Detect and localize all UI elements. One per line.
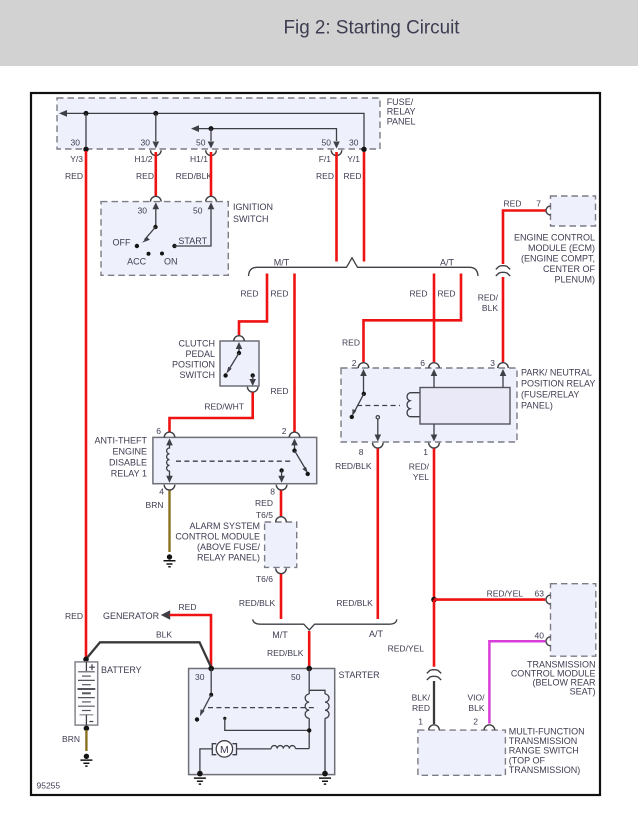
label BLK/RED [412,692,431,713]
svg-text:SEAT): SEAT) [570,687,596,697]
svg-text:63: 63 [535,588,545,598]
wire START to 50 [175,209,212,246]
starter 50 stem [308,669,310,695]
wire M/T left red to clutch [239,274,267,336]
connector at6 [164,432,175,437]
node solenoid junction [307,728,311,732]
svg-text:OFF: OFF [113,237,131,247]
starter dashed link [208,707,317,709]
relay pin2 stem [363,376,365,394]
contact ACC [147,252,151,256]
connector ECM pin 7 [546,206,551,215]
svg-text:2: 2 [352,358,357,368]
wire Y/1 red [363,152,366,262]
svg-text:RED/BLK: RED/BLK [267,648,304,658]
svg-text:RED/YEL: RED/YEL [388,644,425,654]
wire red/yel down [433,600,436,667]
at out stem [281,471,283,477]
switch blade ignition [145,227,156,240]
clutch out stem [252,376,254,380]
relay coil [407,393,420,417]
svg-text:RELAY PANEL): RELAY PANEL) [197,553,260,563]
node Y/3 top [84,111,89,116]
battery stem top [85,662,87,671]
connector ignition 50 [206,196,217,201]
svg-text:(FUSE/RELAY: (FUSE/RELAY [521,390,579,400]
park/neutral position relay box [341,368,517,442]
relay pin6 stem [433,376,435,388]
svg-text:ANTI-THEFT: ANTI-THEFT [95,435,148,445]
connector multi 1 [429,725,440,730]
svg-text:START: START [178,236,207,246]
label RED/YEL relay1 [409,461,430,482]
svg-text:RED: RED [504,199,522,209]
svg-text:RED: RED [65,171,83,181]
TCM label [511,660,596,697]
svg-text:6: 6 [156,426,161,436]
motor M circle [216,741,232,757]
svg-text:F/1: F/1 [319,154,332,164]
svg-text:ACC: ACC [127,256,147,266]
starter switch stem [210,669,212,695]
ground starter right [319,771,331,784]
wire BRN at4 to ground [168,491,170,553]
solenoid aux link [225,718,309,730]
anti-theft coil arrows [166,438,173,445]
svg-text:RED: RED [412,703,430,713]
wire H1/2 red [155,152,158,196]
battery stem bottom [85,715,87,725]
svg-text:BLK: BLK [482,303,498,313]
svg-text:30: 30 [141,137,151,147]
svg-text:M/T: M/T [272,630,288,640]
wire relay8 red/blk [376,449,379,620]
svg-text:RED: RED [342,338,360,348]
svg-text:40: 40 [535,630,545,640]
connector relay pin2 [358,363,369,368]
svg-text:(ENGINE COMPT,: (ENGINE COMPT, [521,254,595,264]
wire Y/3 drop [85,113,87,148]
relay out stem [377,419,379,435]
wire red/yel to TCM 63 [434,598,545,601]
svg-text:RED/WHT: RED/WHT [204,402,244,412]
svg-text:T6/6: T6/6 [256,574,273,584]
node at common [292,448,296,452]
node starter 50 [306,666,312,672]
wire generator red [170,615,212,667]
contact clutch out [251,373,255,377]
wire ignition 30 stem [155,209,157,227]
battery plus sign [89,664,95,670]
svg-text:POSITION: POSITION [172,359,215,369]
svg-text:DISABLE: DISABLE [109,457,147,467]
svg-text:RED: RED [179,602,197,612]
starter coil 2 [325,694,329,718]
contact START [172,244,176,248]
svg-text:A/T: A/T [440,257,455,267]
at pin2 stem [294,445,296,451]
starter coil 1 [305,694,309,718]
wire Y/3 red [85,151,88,658]
svg-text:50: 50 [322,137,332,147]
svg-text:RED: RED [271,289,289,299]
svg-text:30: 30 [71,137,81,147]
svg-text:ALARM SYSTEM: ALARM SYSTEM [189,521,260,531]
connector relay pin8 [373,443,384,448]
clutch pedal position switch box [220,341,259,386]
wire H1/2 drop with arrow [155,113,157,141]
battery minus sign [89,721,93,723]
svg-text:RED: RED [271,386,289,396]
node Y/1 bottom [361,147,366,152]
svg-text:RED: RED [410,289,428,299]
svg-text:4: 4 [159,486,164,496]
contact relay blade end [350,415,354,419]
svg-text:30: 30 [195,672,205,682]
motor brushes [212,744,236,755]
svg-text:PLENUM): PLENUM) [554,275,595,285]
svg-text:SWITCH: SWITCH [233,214,269,224]
arrow left bus1 [59,110,67,117]
ground starter left [194,771,206,784]
starter motor leads [200,749,309,774]
svg-text:7: 7 [536,199,541,209]
svg-text:RED: RED [438,289,456,299]
svg-text:PARK/ NEUTRAL: PARK/ NEUTRAL [521,368,592,378]
svg-text:RELAY 1: RELAY 1 [111,468,147,478]
connector relay pin1 [429,443,440,448]
node clutch common [237,351,241,355]
connector at4 [164,485,175,490]
ECM label [514,233,596,285]
connector relay pin6 [429,363,440,368]
multi-function switch label [509,726,585,775]
contact solenoid aux [223,717,226,720]
svg-text:STARTER: STARTER [339,670,381,680]
svg-text:GENERATOR: GENERATOR [103,611,160,621]
svg-text:H1/2: H1/2 [135,154,153,164]
svg-text:PANEL): PANEL) [521,401,553,411]
svg-text:CLUTCH: CLUTCH [178,338,215,348]
connector clutch top [234,336,245,341]
battery box [75,662,98,725]
wire RED/WHT clutch to relay 6 [170,393,253,432]
svg-text:50: 50 [291,672,301,682]
svg-text:RELAY: RELAY [387,107,416,117]
wire bus 2 in panel [196,129,337,141]
alarm module label [175,521,260,563]
svg-text:BATTERY: BATTERY [101,665,142,675]
svg-text:RED: RED [241,289,259,299]
wire BRN battery to ground [85,730,87,751]
svg-text:ENGINE: ENGINE [112,446,147,456]
node H1/2 top [153,111,158,116]
inline connector ecm wire [496,266,510,270]
contact clutch lower [223,373,227,377]
svg-text:POSITION RELAY: POSITION RELAY [521,379,595,389]
svg-text:TRANSMISSION: TRANSMISSION [509,736,578,746]
relay inner module [420,388,510,425]
svg-text:2: 2 [282,426,287,436]
svg-text:3: 3 [490,358,495,368]
svg-text:SWITCH: SWITCH [180,370,216,380]
svg-text:1: 1 [423,447,428,457]
connector TCM 63 [546,595,551,604]
starter coil2 to ground [324,718,326,773]
svg-text:RED: RED [65,611,83,621]
ground at4 [164,554,176,567]
svg-text:ON: ON [164,257,178,267]
starter inductor [271,746,295,749]
wire RED/BLK alarm to brace [280,574,283,619]
svg-text:BLK: BLK [156,630,172,640]
svg-text:(ABOVE FUSE/: (ABOVE FUSE/ [197,542,261,552]
svg-text:VIO/: VIO/ [467,692,485,702]
contact at out [279,468,283,472]
svg-text:95255: 95255 [37,781,61,791]
arrow left bus2 [191,125,199,132]
node starter 30 [208,666,214,672]
svg-text:30: 30 [138,206,148,216]
svg-text:ENGINE CONTROL: ENGINE CONTROL [514,233,595,243]
svg-text:(TOP OF: (TOP OF [509,755,546,765]
svg-text:BLK: BLK [468,703,484,713]
node relay common [362,392,366,396]
svg-text:FUSE/: FUSE/ [387,97,414,107]
at switch blade [295,451,307,471]
wire BLK/RED to multi switch [433,681,435,724]
fuse/relay panel box [57,98,380,149]
svg-text:Y/3: Y/3 [70,154,83,164]
svg-text:8: 8 [270,486,275,496]
park/neutral relay label [521,368,595,411]
wire F/1 red [335,152,338,262]
node battery minus [84,726,90,732]
svg-text:YEL: YEL [413,472,429,482]
node starter common [209,693,213,697]
svg-text:TRANSMISSION): TRANSMISSION) [509,765,581,775]
svg-text:Fig 2: Starting Circuit: Fig 2: Starting Circuit [284,17,461,39]
contact OFF [135,244,139,248]
svg-text:50: 50 [196,137,206,147]
wire H1/1 red [210,152,213,196]
connector ignition 30 [151,196,162,201]
svg-text:CENTER OF: CENTER OF [543,264,596,274]
clutch blade [228,353,239,371]
anti-theft relay label [95,435,148,478]
svg-text:M/T: M/T [274,257,290,267]
fuse/relay panel label [387,97,416,126]
svg-text:RED/: RED/ [478,293,499,303]
svg-text:RED: RED [344,171,362,181]
wire H1/1 drop with arrow [210,129,212,141]
wire A/T right red to relay 2 [364,274,462,363]
alarm system control module box [265,522,297,567]
svg-text:50: 50 [193,206,203,216]
contact ON [160,252,164,256]
wire M/T right red to anti-theft 2 [293,274,296,432]
contact at blade end [306,472,310,476]
connector TCM 40 [546,637,551,646]
starter coil1 to junction [308,718,310,748]
arrow F/1 drop [333,142,340,149]
wire BLK battery to starter [87,642,212,667]
battery plates [78,672,96,715]
multi-function switch box [418,730,506,775]
brace M/T A/T upper [249,258,479,276]
svg-text:RED/BLK: RED/BLK [176,171,213,181]
wire brace to starter 50 [308,631,311,667]
svg-text:RANGE SWITCH: RANGE SWITCH [509,746,579,756]
svg-text:PANEL: PANEL [387,116,416,126]
svg-text:T6/5: T6/5 [256,510,273,520]
inline connector red/yel blk/red [427,670,441,674]
starter box [189,669,335,775]
wire bus 1 in panel [64,113,364,148]
svg-text:BRN: BRN [146,500,164,510]
relay pin3 stem [502,376,504,388]
wire A/T left red to relay 6 [433,274,436,363]
node red/yel junction [431,597,437,603]
svg-text:30: 30 [349,137,359,147]
svg-text:MODULE (ECM): MODULE (ECM) [528,243,595,253]
svg-text:H1/1: H1/1 [190,154,208,164]
connector at8 [276,485,287,490]
connector H1/1 [206,150,217,155]
anti-theft dashed link [176,460,291,462]
node battery plus [83,657,89,663]
node ignition common [153,225,157,229]
wire relay1 red/yel [433,449,436,600]
brace M/T A/T lower [253,619,397,630]
svg-text:8: 8 [359,447,364,457]
ignition switch box [101,202,228,276]
TCM box [551,584,596,657]
svg-text:2: 2 [473,716,478,726]
svg-text:BLK/: BLK/ [412,692,431,702]
connector alarm top [276,517,287,522]
svg-text:RED/BLK: RED/BLK [239,598,276,608]
svg-text:MULTI-FUNCTION: MULTI-FUNCTION [509,726,585,736]
svg-text:Y/1: Y/1 [347,154,360,164]
svg-text:RED/BLK: RED/BLK [336,598,373,608]
starter coil top link [309,690,325,694]
node H1/1 top [209,126,214,131]
svg-text:M: M [220,744,229,756]
wire RED/BLK to relay 3 [502,277,505,362]
wire ECM red [503,211,546,265]
arrow generator [161,610,170,619]
svg-text:RED: RED [316,171,334,181]
wire RED at8 to alarm [280,491,283,518]
title bar [0,0,638,66]
svg-text:RED: RED [136,171,154,181]
connector H1/2 [151,150,162,155]
connector F/1 [331,150,342,155]
wire VIO/BLK TCM40 to multi [489,641,545,723]
relay switch blade [353,394,364,414]
svg-text:CONTROL MODULE: CONTROL MODULE [175,532,260,542]
svg-text:RED/YEL: RED/YEL [487,588,524,598]
svg-text:A/T: A/T [369,629,384,639]
clutch switch label [172,338,215,380]
connector clutch bottom [247,387,258,392]
connector relay pin3 [498,363,509,368]
svg-text:PEDAL: PEDAL [185,349,215,359]
anti-theft coil [167,445,170,476]
ground battery [80,754,92,767]
contact relay out [376,416,379,419]
label VIO/BLK [467,692,485,713]
svg-text:BRN: BRN [62,734,80,744]
svg-text:RED/: RED/ [409,461,430,471]
relay dashed link [357,405,400,407]
connector alarm bottom [276,568,287,573]
connector multi 2 [484,725,495,730]
svg-text:IGNITION: IGNITION [233,202,273,212]
clutch switch stem [238,349,240,353]
ECM box [551,196,596,226]
svg-text:RED: RED [255,498,273,508]
ignition switch label [233,202,273,224]
relay pin1 stem [433,424,435,435]
anti-theft relay box [153,437,317,483]
svg-text:1: 1 [418,716,423,726]
svg-text:6: 6 [420,358,425,368]
diagram frame [31,93,600,795]
node Y/3 bottom [83,147,88,152]
connector at2 [289,432,300,437]
contact starter blade end [195,717,199,721]
svg-text:RED/BLK: RED/BLK [335,461,372,471]
starter switch blade [202,695,212,714]
label RED/BLK ecm [478,293,499,314]
